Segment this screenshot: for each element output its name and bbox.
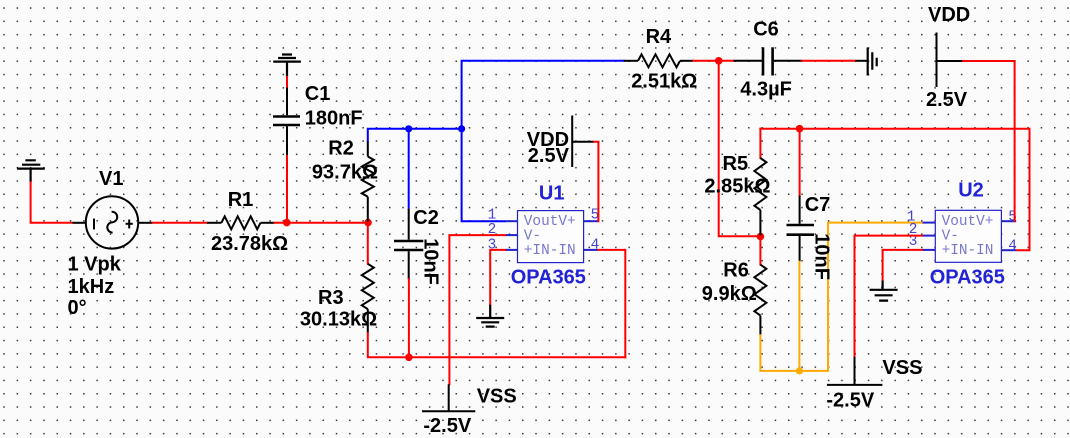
junction node (blue riser) [458, 125, 465, 132]
svg-text:3: 3 [488, 237, 497, 253]
wire (R1 to node) [274, 222, 369, 224]
resistor R3 [362, 222, 374, 333]
wire (C2 bottom to feedback rail) [408, 278, 410, 358]
svg-text:4: 4 [1008, 239, 1017, 255]
resistor R1 [207, 216, 275, 229]
svg-text:V1: V1 [99, 168, 123, 190]
wire (U2 pin2 to VSS) [855, 236, 924, 358]
resistor R5 [754, 128, 766, 236]
svg-text:R6: R6 [723, 260, 749, 282]
wire (U1 pin3 to ground) [490, 250, 506, 306]
junction node (C2 bottom / feedback) [405, 354, 413, 362]
wire (U1 pin4 to feedback rail) [597, 250, 625, 358]
svg-text:VDD: VDD [928, 4, 970, 26]
svg-text:5: 5 [1008, 209, 1017, 225]
wire (C7 bottom, yellow) [798, 261, 800, 372]
AC source V1 [86, 196, 138, 248]
wire (U2 pin3 to ground) [883, 250, 923, 282]
svg-text:-2.5V: -2.5V [826, 389, 874, 411]
op-amp U1 [488, 207, 600, 262]
svg-text:C1: C1 [305, 83, 331, 105]
svg-text:OPA365: OPA365 [511, 266, 586, 288]
junction node (R2/R3) [364, 219, 372, 227]
resistor R4 [624, 54, 694, 67]
ground (above C1) [273, 55, 301, 78]
power VDD (top right) [937, 33, 963, 88]
wire (yellow riser to U2 pin1) [828, 223, 923, 372]
svg-text:C6: C6 [753, 18, 779, 40]
wire (lead to ground) [855, 60, 867, 62]
svg-text:1 Vpk: 1 Vpk [68, 253, 122, 275]
junction node (R4/C6) [715, 57, 723, 65]
svg-text:+IN-IN: +IN-IN [942, 243, 994, 259]
svg-text:R4: R4 [646, 26, 672, 48]
svg-text:OPA365: OPA365 [930, 267, 1005, 289]
wire (ground to C1) [286, 76, 288, 89]
resistor R6 [754, 236, 766, 336]
svg-text:2.5V: 2.5V [528, 145, 570, 167]
power VSS (U2) [827, 357, 883, 385]
svg-text:R1: R1 [228, 189, 254, 211]
svg-text:180nF: 180nF [305, 107, 363, 129]
svg-text:R3: R3 [318, 287, 344, 309]
wire (R6 bottom, yellow) [760, 334, 829, 371]
capacitor C1 [273, 88, 300, 157]
svg-text:2.5V: 2.5V [926, 89, 968, 111]
svg-text:30.13kΩ: 30.13kΩ [300, 308, 377, 330]
wire (blue down to U1 pin1) [462, 128, 506, 221]
svg-text:9.9kΩ: 9.9kΩ [702, 283, 757, 305]
wire (feedback top rail) [759, 129, 1029, 251]
capacitor C6 [734, 47, 802, 75]
wire (VDD to U1 pin5) [593, 142, 598, 222]
svg-text:1kHz: 1kHz [68, 276, 115, 298]
ground (U2 pin3) [870, 281, 898, 301]
op-amp U2 [907, 209, 1017, 262]
ground (left of V1) [17, 160, 45, 182]
svg-text:-2.5V: -2.5V [423, 415, 471, 437]
wire (blue riser to top row) [462, 61, 625, 130]
junction node (C2 top) [405, 125, 412, 132]
wire (R3 bottom to feedback rail) [368, 332, 627, 357]
svg-text:2.85kΩ: 2.85kΩ [704, 175, 770, 197]
power VDD (U1) [572, 116, 594, 168]
wire (U2 pin5 to VDD) [961, 61, 1015, 221]
svg-text:VSS: VSS [477, 386, 517, 408]
svg-text:93.7kΩ: 93.7kΩ [312, 162, 378, 184]
ground (U1 pin3) [476, 305, 504, 327]
wire (blue net R2 top) [368, 129, 463, 143]
wire (V1 to R1) [152, 222, 209, 224]
wire (R4 to node) [692, 60, 734, 62]
wire (C1 to node) [286, 155, 288, 224]
svg-text:10nF: 10nF [811, 233, 833, 280]
junction node (C7 top) [796, 125, 804, 133]
wire (V1 right lead) [138, 222, 152, 224]
svg-text:U2: U2 [958, 180, 984, 202]
capacitor C7 [787, 128, 815, 262]
wire (V1 left lead) [73, 222, 87, 224]
svg-text:0°: 0° [68, 297, 87, 319]
junction node (R1/C1) [283, 219, 291, 227]
svg-text:23.78kΩ: 23.78kΩ [211, 233, 288, 255]
svg-text:C2: C2 [413, 207, 439, 229]
svg-text:R5: R5 [723, 153, 749, 175]
svg-text:2.51kΩ: 2.51kΩ [631, 71, 697, 93]
svg-text:1: 1 [488, 207, 497, 223]
svg-text:4: 4 [591, 237, 600, 253]
resistor R2 [362, 142, 374, 222]
wire (node down to R5/R6 rail) [719, 61, 762, 236]
svg-text:4.3µF: 4.3µF [740, 79, 792, 101]
svg-text:+IN-IN: +IN-IN [524, 243, 576, 259]
ground (right of C6, rotated) [868, 48, 877, 76]
capacitor C2 [394, 128, 423, 279]
svg-text:10nF: 10nF [420, 238, 442, 285]
svg-text:U1: U1 [539, 182, 565, 204]
svg-text:VSS: VSS [882, 357, 922, 379]
junction node (C7 bottom, yellow) [796, 367, 803, 374]
wire (C6 to ground) [801, 60, 857, 62]
power VSS (U1) [422, 384, 475, 411]
wire (ground to V1) [31, 181, 74, 223]
svg-text:R2: R2 [328, 138, 354, 160]
junction node (R5/R6) [757, 233, 765, 241]
svg-text:C7: C7 [805, 194, 831, 216]
wire (U1 pin2 to VSS) [449, 235, 506, 385]
